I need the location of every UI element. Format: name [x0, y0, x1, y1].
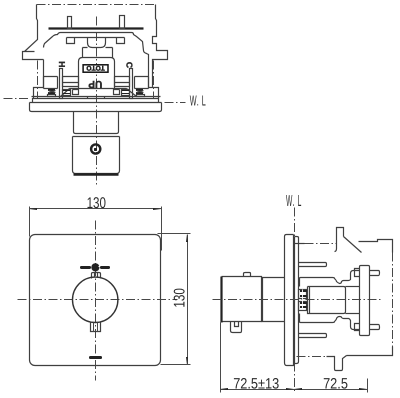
- wall outline right: [149, 5, 168, 99]
- wall bottom edge right: [347, 347, 393, 356]
- check valve bowtie left: [48, 89, 56, 97]
- centerline vertical top view: [96, 17, 98, 187]
- bracket step bottom: [355, 324, 360, 331]
- crosshair horizontal: [18, 299, 178, 301]
- dimension line 130 top: [29, 207, 162, 251]
- cartridge cylinder: [308, 287, 346, 314]
- wall right edge dash-dot: [392, 253, 394, 347]
- base diagonal right: [127, 89, 137, 97]
- screw axis left dash-dot: [37, 61, 39, 99]
- base diagonal left: [61, 89, 70, 97]
- mounting plate body: [44, 33, 149, 88]
- check valve second element right: [122, 90, 130, 96]
- body shoulder line bottom: [346, 313, 360, 315]
- bracket step top: [355, 269, 360, 277]
- plate tab right: [117, 38, 125, 44]
- svg-text:TOTO: TOTO: [86, 64, 104, 71]
- valve casing outer top: [300, 271, 360, 287]
- svg-text:130: 130: [87, 195, 107, 212]
- W.L line right segment: [165, 102, 186, 104]
- handle circle front: [73, 277, 118, 322]
- svg-text:C: C: [125, 62, 135, 68]
- svg-text:W. L: W. L: [286, 193, 302, 210]
- handle top bump side: [244, 273, 251, 277]
- check valve bowtie right: [136, 89, 145, 97]
- wing left: [63, 77, 79, 87]
- plate pin left: [68, 17, 72, 29]
- handle top view: [73, 137, 120, 174]
- cartridge threaded section: [299, 290, 309, 311]
- check valve second element left: [63, 90, 71, 96]
- temperature lever symbol: [80, 263, 110, 271]
- plate gasket line: [67, 37, 125, 39]
- plate pin right: [120, 16, 125, 29]
- handle screw circle: [91, 144, 100, 153]
- check valve housing left: [44, 77, 58, 89]
- handle side: [222, 277, 262, 323]
- handle top tab front: [92, 273, 101, 279]
- dimension line 72.5±13: [220, 388, 295, 390]
- body bottom line: [70, 88, 127, 90]
- check valve housing right: [135, 77, 149, 89]
- wall outline left: [23, 5, 44, 99]
- screw axis right dash-dot: [153, 61, 155, 99]
- handle bottom thick edge: [74, 173, 119, 175]
- wall screw top: [299, 263, 327, 267]
- body shoulder line top: [346, 286, 360, 288]
- svg-text:W. L: W. L: [190, 93, 207, 109]
- dimension line 72.5: [294, 388, 368, 390]
- wall line bottom dash-dot: [297, 356, 327, 358]
- wall screw bottom: [299, 334, 327, 338]
- flange side plate: [285, 235, 294, 366]
- crosshair vertical: [95, 221, 97, 381]
- wall notch bottom: [327, 356, 347, 371]
- flange plate: [30, 103, 162, 112]
- cartridge cup: [88, 38, 106, 48]
- wall notch chimney: [335, 228, 362, 253]
- neck top view: [74, 112, 119, 134]
- indicator bar left: [60, 69, 63, 99]
- cartridge upper rect: [83, 48, 113, 58]
- plate tab left: [67, 38, 75, 44]
- svg-text:H: H: [57, 61, 67, 67]
- supply pipe bottom right: [370, 325, 380, 330]
- dim extension right: [367, 379, 369, 393]
- check valve base step left: [73, 90, 79, 95]
- dim extension left: [220, 323, 222, 393]
- svg-text:130: 130: [172, 288, 189, 308]
- valve body rounded rect: [79, 58, 115, 89]
- svg-text:UP: UP: [88, 78, 102, 89]
- supply pipe top right: [370, 271, 380, 276]
- dimension line 130 right: [158, 234, 191, 366]
- valve bracket plate: [360, 266, 370, 336]
- base legs center: [88, 97, 105, 99]
- valve casing outer bottom: [300, 314, 360, 330]
- valve axis centerline: [213, 299, 381, 301]
- wall top edge right: [359, 240, 393, 253]
- mounting plate thick line: [49, 27, 144, 29]
- handle bottom tab side: [231, 322, 242, 333]
- W.L vertical dash-dot: [294, 208, 296, 393]
- handle bottom tab front: [91, 323, 101, 332]
- neck side: [262, 278, 285, 322]
- svg-text:72.5±13: 72.5±13: [233, 376, 279, 393]
- TOTO logo box: [83, 64, 108, 72]
- wing right: [115, 77, 130, 87]
- base bottom line: [32, 96, 161, 98]
- W.L line left segment: [4, 98, 29, 100]
- escutcheon plate front: [30, 235, 161, 366]
- svg-text:72.5: 72.5: [323, 376, 348, 393]
- bottom index tick: [89, 356, 102, 359]
- check valve base step right: [114, 90, 120, 95]
- flange lip: [33, 99, 159, 103]
- indicator bar right: [130, 69, 133, 99]
- wall top dash-dot line: [37, 4, 156, 6]
- wall line top dash-dot: [295, 243, 305, 245]
- flange back plate: [295, 237, 299, 364]
